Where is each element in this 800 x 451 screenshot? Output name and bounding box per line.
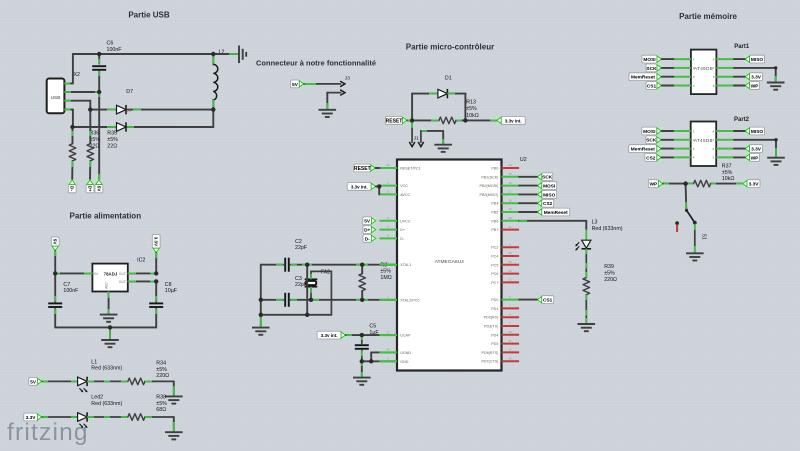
ground (J1) xyxy=(434,145,452,152)
svg-text:Part1: Part1 xyxy=(734,44,750,50)
wire: J3 pin 2 to ground xyxy=(326,93,328,110)
U2 pin PD7(CTS) xyxy=(502,360,520,362)
net flag RESET (U2) xyxy=(354,164,376,172)
node: OUT1 / 3.3V xyxy=(154,271,158,275)
net flag CS2 (U2) xyxy=(537,199,554,207)
svg-text:PC5: PC5 xyxy=(491,263,498,267)
svg-text:3.3V: 3.3V xyxy=(26,415,37,420)
net flag SCK (U2) xyxy=(537,173,553,181)
svg-text:SCK: SCK xyxy=(646,138,657,144)
svg-text:D6: D6 xyxy=(126,107,132,112)
switch S1 xyxy=(685,209,688,212)
node: C5 / GND xyxy=(360,359,364,363)
ground (Part1) xyxy=(767,83,785,90)
wire: USB pin1 to top rail xyxy=(64,82,73,84)
resistor R13 leads xyxy=(412,119,439,121)
svg-text:3.3V: 3.3V xyxy=(751,147,762,153)
resistor R3 xyxy=(359,274,366,291)
U2 pin PB5 xyxy=(502,211,520,213)
U2 pin PB1(SCK) xyxy=(502,176,520,178)
ground (ADJ) xyxy=(100,315,118,322)
wire: switch to ground xyxy=(694,224,696,253)
svg-text:PD3(TX): PD3(TX) xyxy=(484,325,498,329)
svg-text:Partie micro-contrôleur: Partie micro-contrôleur xyxy=(406,42,494,51)
diode D6 xyxy=(117,105,127,114)
net flag MemReset (U2) xyxy=(537,208,570,216)
node: crystal / XTAL2 xyxy=(309,298,313,302)
ground (R39) xyxy=(578,324,596,331)
resistor R36 lead xyxy=(72,127,74,144)
connector J1 pin 2 (arrow down) xyxy=(420,131,422,142)
capacitor C3 xyxy=(285,293,289,307)
wire: USB pin4 xyxy=(64,109,73,111)
wire: USB pin3 xyxy=(64,100,90,102)
node: top rail / C6 xyxy=(97,52,101,56)
wire: RESET flag to pin xyxy=(376,167,380,169)
net flag MOSI xyxy=(642,55,662,63)
svg-text:IC2: IC2 xyxy=(137,257,145,263)
wire: L2 top to ground xyxy=(213,53,239,55)
U2 pin PB4 xyxy=(502,202,520,204)
svg-text:R37: R37 xyxy=(722,164,732,170)
wire: PB6 to LED L3 xyxy=(519,220,586,222)
ground (S1) xyxy=(686,253,704,260)
node: D- / R36 xyxy=(70,125,74,129)
wire: Part2 pin7 to ground xyxy=(734,139,776,141)
svg-text:Partie USB: Partie USB xyxy=(128,11,170,20)
svg-text:WP: WP xyxy=(751,155,760,161)
resistor R35 lead xyxy=(89,110,91,144)
net flag 5V (J3) xyxy=(291,80,304,88)
svg-text:15: 15 xyxy=(508,172,512,176)
IC U2 ATMEGA8U2 box xyxy=(397,160,502,371)
LED Led2 xyxy=(78,413,88,422)
wire: Led2 cathode to R38 xyxy=(87,416,128,418)
wire: flag to UCAP xyxy=(346,334,397,336)
svg-text:C6: C6 xyxy=(107,41,114,47)
U2 pin PC5 xyxy=(502,264,520,266)
U2 pin VCC xyxy=(379,185,397,187)
capacitor C6 xyxy=(92,66,106,70)
svg-text:D1: D1 xyxy=(445,75,452,81)
svg-text:Led2: Led2 xyxy=(91,395,103,401)
svg-text:PD4: PD4 xyxy=(491,333,498,337)
node: R3 top xyxy=(360,263,364,267)
svg-text:220Ω: 220Ω xyxy=(156,373,169,379)
diode D7 xyxy=(117,123,127,132)
svg-text:AVCC: AVCC xyxy=(400,193,410,197)
connector J3 pin 1 (arrow) xyxy=(304,83,341,85)
wire: R35 to D+ flag xyxy=(89,161,91,180)
net flag 3.3V (Part1) xyxy=(745,73,763,81)
resistor R35 xyxy=(87,144,94,161)
svg-text:Red (633nm): Red (633nm) xyxy=(91,366,122,372)
connector X2 (USB) xyxy=(47,79,65,114)
svg-text:PD0: PD0 xyxy=(491,298,498,302)
node: WP / R37 xyxy=(683,181,687,185)
net flag MISO (Part2) xyxy=(745,127,765,135)
svg-text:3.3v int.: 3.3v int. xyxy=(351,184,368,189)
svg-text:Red (633nm): Red (633nm) xyxy=(592,226,623,232)
svg-text:5V: 5V xyxy=(30,379,37,384)
U2 pin XTAL1 xyxy=(379,264,397,266)
ground (U2) xyxy=(353,378,371,385)
wire: GND row xyxy=(362,360,397,362)
node: IN / C7 xyxy=(53,271,57,275)
svg-text:AT45DB: AT45DB xyxy=(694,138,713,143)
svg-text:R38: R38 xyxy=(156,395,166,401)
svg-text:3.3V: 3.3V xyxy=(154,237,159,247)
wire: VCC node branch xyxy=(378,185,380,188)
svg-text:19: 19 xyxy=(508,207,512,211)
U2 pin D+ xyxy=(379,229,397,231)
ground (J3) xyxy=(319,110,337,117)
wire: left vertical xyxy=(260,265,262,328)
net flag 3.3v int. (reset circuit) xyxy=(496,117,525,125)
svg-text:D-: D- xyxy=(70,186,75,191)
svg-text:PD2(RX): PD2(RX) xyxy=(484,316,499,320)
U2 pin GND xyxy=(379,360,397,362)
svg-text:U2: U2 xyxy=(520,157,527,163)
wire: 5V flag down to IN node xyxy=(54,251,56,273)
net flag 5V xyxy=(95,180,103,193)
svg-text:5V: 5V xyxy=(53,239,58,246)
svg-text:MISO: MISO xyxy=(751,129,764,135)
svg-text:D7: D7 xyxy=(126,89,133,95)
svg-text:25: 25 xyxy=(508,260,512,264)
svg-text:±5%: ±5% xyxy=(722,170,733,176)
resistor R39 xyxy=(583,278,590,295)
resistor R34 xyxy=(128,378,145,385)
resistor R13 xyxy=(439,117,456,124)
ground (power rail) xyxy=(101,340,119,347)
U2 pin PB7 xyxy=(502,229,520,231)
node: return / bottom rail xyxy=(305,313,309,317)
wire: RESET flag to node A xyxy=(407,119,412,121)
svg-text:UVCC: UVCC xyxy=(400,219,411,223)
net flag D+ xyxy=(86,180,94,193)
svg-text:78ADJ: 78ADJ xyxy=(104,272,118,277)
wire: J1 pin2 to ground xyxy=(421,130,443,132)
svg-text:C8: C8 xyxy=(165,282,172,288)
svg-text:±5%: ±5% xyxy=(156,401,167,407)
svg-text:D+: D+ xyxy=(87,186,92,192)
U2 pin PC2 xyxy=(502,246,520,248)
svg-text:L1: L1 xyxy=(91,359,97,365)
capacitor C8 leads xyxy=(155,281,157,301)
svg-text:10kΩ: 10kΩ xyxy=(722,176,735,182)
svg-text:MISO: MISO xyxy=(751,57,764,63)
capacitor C5 xyxy=(355,345,369,349)
svg-text:AT45DB: AT45DB xyxy=(694,66,713,71)
U2 pin PB0 xyxy=(502,167,520,169)
capacitor C2 xyxy=(285,258,289,272)
svg-text:C7: C7 xyxy=(63,282,70,288)
svg-text:5V: 5V xyxy=(364,219,371,224)
wire: WP flag to junction xyxy=(663,183,685,185)
svg-text:WP: WP xyxy=(650,182,659,188)
corner: Part2 gnd xyxy=(774,138,777,141)
connector J1 pin 1 (arrow down) xyxy=(411,120,413,142)
svg-text:±5%: ±5% xyxy=(604,271,615,277)
net flag 3.3v int. (UCAP) xyxy=(317,331,346,339)
net flag D- (U2) xyxy=(363,235,376,243)
svg-text:Part2: Part2 xyxy=(734,117,750,123)
IC Part1 (AT45DB) xyxy=(691,50,717,95)
svg-text:J1: J1 xyxy=(414,136,419,142)
svg-text:12: 12 xyxy=(508,348,512,352)
net flag 3.3V (LED Led2) xyxy=(24,413,42,421)
net flag 3.3v int. (U2 VCC) xyxy=(347,183,376,191)
svg-text:S1: S1 xyxy=(700,234,706,240)
node: XTAL1 / return xyxy=(305,263,309,267)
net flag 5V (LED L1) xyxy=(29,378,42,386)
wire: 3.3V flag down to OUT node xyxy=(155,253,157,273)
svg-text:XTAL2/PC0: XTAL2/PC0 xyxy=(400,298,419,302)
U2 pin PD1 xyxy=(502,307,520,309)
wire: 5V drop from C6 node to flag xyxy=(98,92,100,180)
svg-text:1µF: 1µF xyxy=(369,330,379,336)
svg-text:PC2: PC2 xyxy=(491,246,498,250)
svg-text:D+: D+ xyxy=(400,228,405,232)
svg-text:D-: D- xyxy=(365,236,370,242)
wire: R38 to ground xyxy=(145,416,174,418)
node: L2 bottom / diode rows xyxy=(211,107,215,111)
node: UGND / GND xyxy=(369,359,373,363)
resistor R36 xyxy=(69,144,76,161)
node: VBUS / C6 / 5V xyxy=(97,90,101,94)
wire: node B to 3.3v int flag xyxy=(465,119,496,121)
svg-text:5V: 5V xyxy=(96,186,101,193)
U2 pin PD6(RTS) xyxy=(502,351,520,353)
svg-text:3.3v int.: 3.3v int. xyxy=(321,333,338,338)
svg-text:C5: C5 xyxy=(369,324,376,330)
U2 pin PC7 xyxy=(502,281,520,283)
net flag CS1 (U2) xyxy=(537,296,554,304)
U2 pin PD4 xyxy=(502,334,520,336)
net flag RESET (reset circuit) xyxy=(386,117,408,125)
capacitor C6 leads xyxy=(98,54,100,64)
svg-text:3.3v int.: 3.3v int. xyxy=(505,118,522,123)
resistor R37 leads xyxy=(686,183,694,185)
ground (crystal) xyxy=(252,328,270,335)
U2 pin D- xyxy=(379,237,397,239)
svg-text:68Ω: 68Ω xyxy=(156,407,166,413)
svg-text:14: 14 xyxy=(508,163,512,167)
svg-text:USB: USB xyxy=(51,95,61,101)
ground (R34) xyxy=(165,396,183,403)
U2 pin UGND xyxy=(379,351,397,353)
wire: 3.3v int to VCC node xyxy=(376,185,379,187)
regulator IC2 box xyxy=(92,264,127,292)
svg-text:X2: X2 xyxy=(74,72,81,78)
wire: PB1 to SCK xyxy=(519,176,537,178)
svg-text:MemReset: MemReset xyxy=(631,75,655,81)
U2 pin PB6 xyxy=(502,220,520,222)
svg-text:MISO: MISO xyxy=(543,192,556,198)
svg-text:32: 32 xyxy=(386,190,390,194)
svg-text:PD1: PD1 xyxy=(491,307,498,311)
wire: PB4 to CS2 xyxy=(519,202,537,204)
net flag 5V (U2 UVCC) xyxy=(363,217,376,225)
U2 pin RESET/PC1 xyxy=(379,167,397,169)
wire: USB pin2 to C6 node xyxy=(64,91,99,93)
svg-text:24: 24 xyxy=(386,163,390,167)
net flag MISO (U2) xyxy=(537,191,557,199)
node: L2 top xyxy=(211,52,215,56)
wire: UGND hop xyxy=(371,351,397,353)
svg-text:SCK: SCK xyxy=(646,66,657,72)
U2 pin AVCC xyxy=(379,193,397,195)
U2 pin PB3(MISO) xyxy=(502,193,520,195)
svg-text:C3: C3 xyxy=(295,276,302,282)
inductor L2 xyxy=(212,54,214,64)
capacitor C7 leads xyxy=(54,273,56,301)
svg-text:3.3V: 3.3V xyxy=(751,75,762,81)
svg-text:27: 27 xyxy=(386,330,390,334)
U2 pin PC6 xyxy=(502,273,520,275)
U2 pin PD0 xyxy=(502,299,520,301)
wire: PD0 to CS1 xyxy=(519,299,537,301)
net flag MISO (Part1) xyxy=(745,55,765,63)
net flag WP (Part1) xyxy=(745,82,760,90)
svg-text:220Ω: 220Ω xyxy=(604,277,617,283)
LED L3 xyxy=(585,230,587,241)
svg-text:MemReset: MemReset xyxy=(631,147,655,153)
wire: R36 to D- flag xyxy=(71,161,73,180)
net flag 3.3V (pull-up) xyxy=(742,180,760,188)
wire: Part1 pin7 to ground xyxy=(734,67,776,69)
svg-text:5V: 5V xyxy=(292,82,299,87)
svg-text:MOSI: MOSI xyxy=(643,129,656,135)
svg-text:RESET/PC1: RESET/PC1 xyxy=(400,167,421,171)
svg-text:PB3(MISO): PB3(MISO) xyxy=(480,193,499,197)
svg-text:PB0: PB0 xyxy=(491,167,498,171)
svg-text:UGND: UGND xyxy=(400,351,411,355)
node: UCAP / C5 xyxy=(360,333,364,337)
U2 pin UVCC xyxy=(379,220,397,222)
resistor R3 leads xyxy=(361,265,363,274)
wire: IN xyxy=(55,272,92,274)
svg-text:MOSI: MOSI xyxy=(543,184,556,190)
svg-text:OUT: OUT xyxy=(119,272,126,276)
U2 pin UCAP xyxy=(379,334,397,336)
node: R3 bottom xyxy=(360,298,364,302)
connector J3 pin 2 (arrow) xyxy=(327,92,340,94)
resistor R37 xyxy=(694,180,711,187)
svg-text:MOSI: MOSI xyxy=(643,57,656,63)
svg-text:R39: R39 xyxy=(604,264,614,270)
svg-text:CS2: CS2 xyxy=(646,155,656,161)
svg-text:26: 26 xyxy=(508,251,512,255)
wire: crystal bottom to XTAL2 row xyxy=(310,287,312,300)
svg-text:J3: J3 xyxy=(345,75,350,81)
svg-text:1MΩ: 1MΩ xyxy=(380,275,391,281)
svg-text:18: 18 xyxy=(508,198,512,202)
svg-text:PC6: PC6 xyxy=(491,272,498,276)
svg-text:21: 21 xyxy=(508,225,512,229)
svg-text:CS1: CS1 xyxy=(647,83,657,89)
U2 pin PB2(MOSI) xyxy=(502,185,520,187)
svg-text:3.3V: 3.3V xyxy=(749,182,760,188)
net flag SCK xyxy=(646,136,662,144)
svg-text:16: 16 xyxy=(508,181,512,185)
svg-text:PB7: PB7 xyxy=(491,228,498,232)
svg-text:20: 20 xyxy=(508,216,512,220)
svg-text:PC7: PC7 xyxy=(491,281,498,285)
svg-text:PB1(SCK): PB1(SCK) xyxy=(481,175,498,179)
node: left vertical / bottom rail xyxy=(259,313,263,317)
svg-text:UCAP: UCAP xyxy=(400,334,411,338)
svg-text:ADJ: ADJ xyxy=(104,282,108,289)
wire: crystal top loop xyxy=(310,271,312,279)
net flag WP (Part2) xyxy=(745,154,760,162)
svg-text:PC4: PC4 xyxy=(491,255,498,259)
svg-text:±5%: ±5% xyxy=(156,367,167,373)
wire: PB2 to MOSI xyxy=(519,185,537,187)
svg-text:±5%: ±5% xyxy=(466,106,477,112)
ground (R38) xyxy=(165,432,183,439)
svg-text:L3: L3 xyxy=(592,220,598,226)
svg-text:±5%: ±5% xyxy=(107,137,118,143)
LED L1 xyxy=(78,377,88,386)
capacitor C8 xyxy=(149,303,163,307)
net flag WP (pull-up) xyxy=(648,180,663,188)
resistor R38 xyxy=(128,414,145,421)
wire: OUT1 xyxy=(128,272,156,274)
svg-text:FA2: FA2 xyxy=(321,269,330,275)
svg-text:22pF: 22pF xyxy=(295,245,308,251)
wire: XTAL1 row xyxy=(261,264,283,266)
wire: XTAL2 row xyxy=(261,299,283,301)
svg-text:PB2(MOSI): PB2(MOSI) xyxy=(480,184,499,188)
net flag 5V (regulator input) xyxy=(51,237,59,251)
diode D1 xyxy=(438,89,448,98)
node B (3.3v int) xyxy=(463,118,467,122)
wire: junction down to switch xyxy=(685,184,688,210)
net flag MemReset xyxy=(629,145,662,153)
capacitor C7 xyxy=(48,303,62,307)
wire: top rail xyxy=(73,53,213,55)
svg-text:17: 17 xyxy=(508,190,512,194)
wire: bottom return xyxy=(261,314,332,316)
corner: Part1 gnd xyxy=(774,66,777,69)
svg-text:Connecteur à notre fonctionnal: Connecteur à notre fonctionnalité xyxy=(256,59,376,68)
wire: D- line (diode D7 row) xyxy=(73,126,117,128)
svg-text:PD7(CTS): PD7(CTS) xyxy=(481,360,498,364)
svg-text:PD6(RTS): PD6(RTS) xyxy=(481,351,498,355)
svg-text:XTAL1: XTAL1 xyxy=(400,263,411,267)
wire: 5V to L1 anode xyxy=(42,380,77,382)
svg-text:R13: R13 xyxy=(466,100,476,106)
node: D+ / R35 xyxy=(88,107,92,111)
net flag MOSI (U2) xyxy=(537,182,557,190)
svg-text:PD5: PD5 xyxy=(491,342,498,346)
svg-text:PB5: PB5 xyxy=(491,211,498,215)
wire: right vertical joining diode rows xyxy=(212,110,214,127)
wire: 3.3V to Led2 anode xyxy=(42,416,77,418)
svg-text:C2: C2 xyxy=(295,239,302,245)
net flag D- xyxy=(68,180,76,193)
U2 pin XTAL2/PC0 xyxy=(379,299,397,301)
svg-text:R34: R34 xyxy=(156,361,166,367)
svg-text:22: 22 xyxy=(508,278,512,282)
svg-text:GND: GND xyxy=(400,360,409,364)
net flag MOSI xyxy=(642,127,662,135)
svg-text:PB6: PB6 xyxy=(491,219,498,223)
node: OUT2 / C8 xyxy=(154,279,158,283)
svg-text:RESET: RESET xyxy=(354,166,371,172)
